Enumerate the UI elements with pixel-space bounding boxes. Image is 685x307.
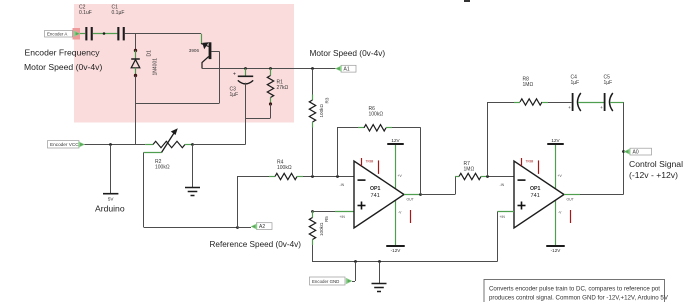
svg-text:+: +: [600, 105, 603, 110]
svg-text:100kΩ: 100kΩ: [319, 104, 324, 118]
svg-text:R5: R5: [324, 216, 329, 222]
svg-text:+V: +V: [398, 174, 403, 178]
svg-text:+V: +V: [558, 174, 563, 178]
svg-text:+IN: +IN: [500, 215, 506, 219]
svg-text:Encoder A: Encoder A: [47, 32, 67, 37]
svg-text:produces control signal. Commo: produces control signal. Common GND for …: [489, 295, 669, 302]
svg-text:D1: D1: [147, 50, 153, 57]
svg-text:Reference Speed (0v-4v): Reference Speed (0v-4v): [210, 240, 302, 249]
svg-text:TRIM: TRIM: [366, 160, 374, 164]
svg-text:+: +: [233, 72, 236, 78]
svg-text:1MΩ: 1MΩ: [464, 167, 475, 173]
svg-text:12V: 12V: [391, 138, 400, 143]
svg-text:Control Signal: Control Signal: [629, 159, 683, 169]
svg-text:3906: 3906: [189, 48, 200, 53]
svg-text:5V: 5V: [108, 197, 115, 202]
svg-text:1µF: 1µF: [230, 92, 239, 98]
svg-text:100kΩ: 100kΩ: [369, 112, 384, 118]
svg-text:Encoder VCC: Encoder VCC: [50, 142, 79, 147]
svg-text:0.1uF: 0.1uF: [79, 10, 92, 16]
svg-text:741: 741: [531, 193, 540, 199]
svg-text:100kΩ: 100kΩ: [277, 165, 292, 171]
svg-text:R3: R3: [325, 97, 330, 103]
svg-text:Motor Speed (0v-4v): Motor Speed (0v-4v): [24, 62, 102, 72]
svg-text:+IN: +IN: [340, 215, 346, 219]
svg-text:Converts encoder pulse train t: Converts encoder pulse train to DC, comp…: [489, 285, 660, 292]
svg-text:27kΩ: 27kΩ: [277, 85, 289, 91]
svg-text:+: +: [568, 105, 571, 110]
svg-text:-12V: -12V: [391, 248, 402, 253]
svg-text:Arduino: Arduino: [95, 204, 125, 214]
svg-text:OP1: OP1: [370, 186, 380, 192]
svg-text:-IN: -IN: [500, 183, 505, 187]
svg-text:Encoder Frequency: Encoder Frequency: [25, 48, 101, 58]
svg-text:-IN: -IN: [340, 183, 345, 187]
svg-text:100kΩ: 100kΩ: [155, 165, 170, 171]
svg-text:Motor Speed (0v-4v): Motor Speed (0v-4v): [310, 48, 386, 58]
svg-text:(-12v - +12v): (-12v - +12v): [629, 170, 678, 180]
svg-text:OUT: OUT: [567, 197, 574, 201]
svg-text:-12V: -12V: [551, 248, 562, 253]
svg-text:1µF: 1µF: [604, 80, 613, 86]
svg-text:100kΩ: 100kΩ: [319, 222, 324, 236]
svg-text:Encoder GND: Encoder GND: [312, 279, 339, 284]
svg-text:OP1: OP1: [530, 186, 540, 192]
svg-text:1N4001: 1N4001: [153, 58, 159, 76]
svg-text:A1: A1: [344, 67, 350, 73]
svg-text:A2: A2: [259, 224, 265, 230]
svg-text:1MΩ: 1MΩ: [523, 82, 534, 88]
svg-text:741: 741: [371, 193, 380, 199]
svg-text:0.1µF: 0.1µF: [112, 10, 125, 16]
svg-text:1µF: 1µF: [571, 80, 580, 86]
svg-text:OUT: OUT: [407, 197, 414, 201]
svg-text:A0: A0: [633, 150, 639, 156]
svg-text:12V: 12V: [551, 138, 560, 143]
svg-text:TRIM: TRIM: [526, 160, 534, 164]
